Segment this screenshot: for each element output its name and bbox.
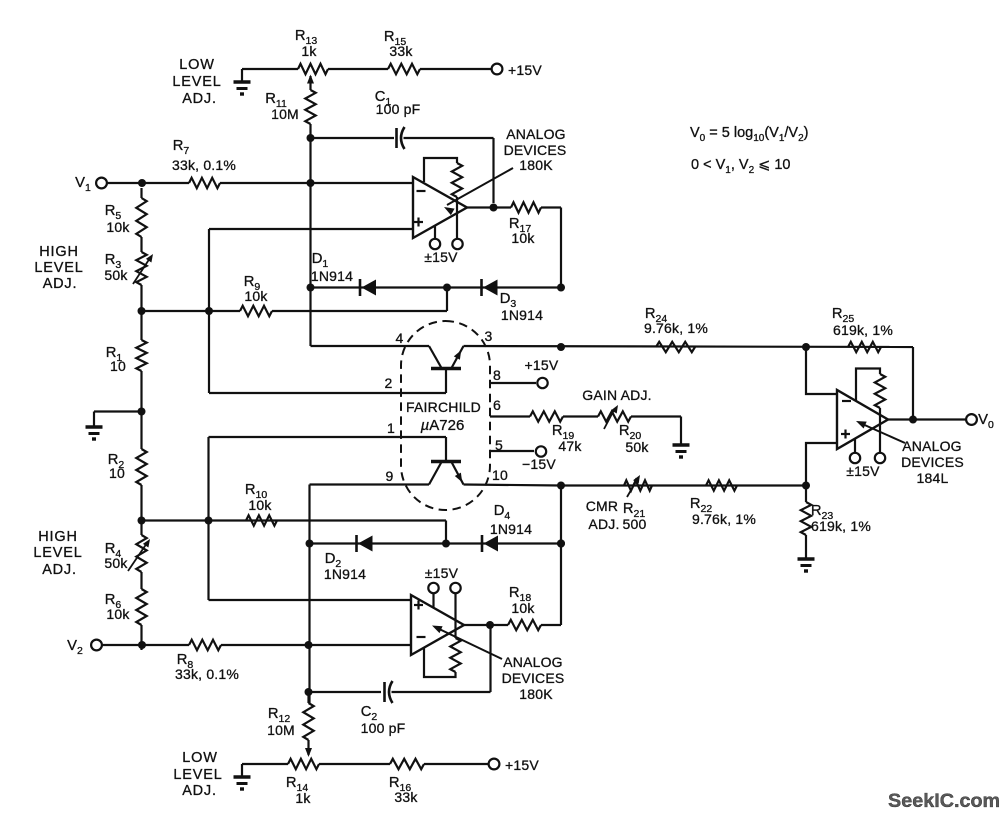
svg-text:DEVICES: DEVICES bbox=[504, 142, 567, 158]
svg-text:ADJ.: ADJ. bbox=[42, 562, 77, 578]
svg-text:619k, 1%: 619k, 1% bbox=[811, 518, 871, 534]
svg-text:1k: 1k bbox=[295, 790, 311, 806]
svg-text:±15V: ±15V bbox=[846, 463, 880, 479]
svg-text:180K: 180K bbox=[519, 686, 553, 702]
svg-text:10k: 10k bbox=[106, 219, 130, 235]
svg-text:100 pF: 100 pF bbox=[361, 720, 406, 736]
svg-text:8: 8 bbox=[493, 367, 501, 383]
svg-text:10k: 10k bbox=[106, 606, 130, 622]
svg-text:FAIRCHILD: FAIRCHILD bbox=[406, 399, 481, 415]
svg-text:1k: 1k bbox=[301, 43, 317, 59]
svg-text:1N914: 1N914 bbox=[490, 521, 532, 537]
svg-text:47k: 47k bbox=[558, 438, 582, 454]
svg-text:1N914: 1N914 bbox=[324, 566, 366, 582]
svg-text:50k: 50k bbox=[104, 267, 128, 283]
svg-text:1N914: 1N914 bbox=[501, 307, 543, 323]
svg-text:ANALOG: ANALOG bbox=[902, 438, 962, 454]
svg-text:LEVEL: LEVEL bbox=[34, 260, 83, 276]
svg-text:LOW: LOW bbox=[182, 750, 217, 766]
svg-text:LEVEL: LEVEL bbox=[173, 767, 222, 783]
svg-text:LOW: LOW bbox=[179, 57, 214, 73]
svg-text:HIGH: HIGH bbox=[39, 244, 78, 260]
svg-text:µA726: µA726 bbox=[421, 417, 465, 434]
svg-text:ADJ.: ADJ. bbox=[182, 91, 217, 107]
svg-text:50k: 50k bbox=[104, 555, 128, 571]
svg-text:HIGH: HIGH bbox=[38, 529, 77, 545]
svg-text:10k: 10k bbox=[244, 288, 268, 304]
svg-text:1N914: 1N914 bbox=[311, 268, 353, 284]
svg-text:+15V: +15V bbox=[508, 62, 542, 78]
svg-text:10k: 10k bbox=[511, 230, 535, 246]
svg-text:ANALOG: ANALOG bbox=[503, 654, 563, 670]
svg-text:500: 500 bbox=[623, 516, 647, 532]
svg-text:+15V: +15V bbox=[505, 757, 539, 773]
svg-text:10k: 10k bbox=[511, 600, 535, 616]
svg-text:619k, 1%: 619k, 1% bbox=[833, 322, 893, 338]
svg-text:CMR: CMR bbox=[586, 498, 618, 514]
svg-text:33k: 33k bbox=[394, 789, 418, 805]
svg-text:ADJ.: ADJ. bbox=[588, 516, 619, 532]
svg-text:9: 9 bbox=[386, 468, 394, 484]
svg-text:10k: 10k bbox=[248, 497, 272, 513]
svg-text:LEVEL: LEVEL bbox=[33, 545, 82, 561]
svg-text:33k, 0.1%: 33k, 0.1% bbox=[172, 157, 236, 173]
svg-text:9.76k, 1%: 9.76k, 1% bbox=[692, 511, 756, 527]
svg-text:−15V: −15V bbox=[522, 456, 556, 472]
svg-text:±15V: ±15V bbox=[425, 565, 459, 581]
svg-text:GAIN ADJ.: GAIN ADJ. bbox=[582, 387, 651, 403]
svg-text:10: 10 bbox=[492, 467, 508, 483]
svg-text:10: 10 bbox=[109, 465, 125, 481]
svg-text:LEVEL: LEVEL bbox=[172, 74, 221, 90]
svg-text:184L: 184L bbox=[917, 470, 949, 486]
svg-text:10M: 10M bbox=[271, 106, 299, 122]
svg-text:4: 4 bbox=[396, 330, 404, 346]
svg-text:DEVICES: DEVICES bbox=[901, 454, 964, 470]
svg-text:2: 2 bbox=[385, 375, 393, 391]
svg-text:DEVICES: DEVICES bbox=[502, 670, 565, 686]
svg-text:ANALOG: ANALOG bbox=[506, 126, 566, 142]
svg-text:SeekIC.com: SeekIC.com bbox=[888, 790, 1000, 812]
svg-text:10: 10 bbox=[110, 358, 126, 374]
svg-text:10M: 10M bbox=[267, 722, 295, 738]
svg-text:3: 3 bbox=[485, 328, 493, 344]
svg-text:33k, 0.1%: 33k, 0.1% bbox=[175, 666, 239, 682]
svg-text:50k: 50k bbox=[625, 439, 649, 455]
svg-text:+15V: +15V bbox=[525, 357, 559, 373]
svg-text:9.76k, 1%: 9.76k, 1% bbox=[644, 320, 708, 336]
svg-text:ADJ.: ADJ. bbox=[43, 276, 78, 292]
svg-text:ADJ.: ADJ. bbox=[182, 783, 217, 799]
svg-text:±15V: ±15V bbox=[424, 249, 458, 265]
svg-text:1: 1 bbox=[387, 420, 395, 436]
svg-text:33k: 33k bbox=[389, 43, 413, 59]
svg-text:180K: 180K bbox=[519, 157, 553, 173]
svg-text:6: 6 bbox=[493, 397, 501, 413]
svg-text:100 pF: 100 pF bbox=[376, 101, 421, 117]
